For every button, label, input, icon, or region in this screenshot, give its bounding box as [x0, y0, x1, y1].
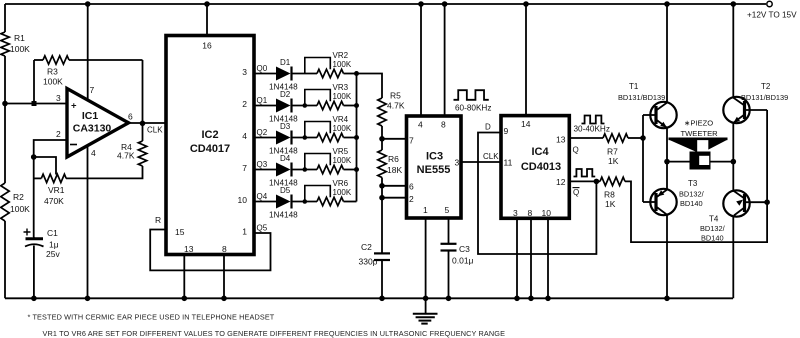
svg-text:100K: 100K	[333, 156, 352, 165]
op-amp IC1 CA3130	[67, 89, 129, 158]
svg-text:0.01μ: 0.01μ	[452, 256, 474, 266]
svg-text:4: 4	[91, 148, 96, 158]
svg-text:3: 3	[56, 93, 61, 103]
wire D1 cathode to VR2	[292, 73, 318, 75]
wire D3 cathode to VR4	[292, 137, 318, 139]
svg-text:12: 12	[556, 177, 566, 187]
svg-text:T3: T3	[688, 179, 698, 188]
IC4 CD4013 box	[501, 116, 569, 219]
svg-text:C3: C3	[459, 244, 470, 254]
IC2 pin16 wire to +V rail	[206, 4, 208, 36]
capacitor C1 1u 25v electrolytic	[33, 237, 35, 238]
svg-text:VR3: VR3	[333, 83, 349, 92]
wire speaker left terminal	[667, 161, 690, 163]
squarewave symbol Q-bar output	[574, 169, 596, 177]
svg-text:T4: T4	[709, 215, 719, 224]
svg-text:VR1 TO VR6 ARE SET FOR DIFFERE: VR1 TO VR6 ARE SET FOR DIFFERENT VALUES …	[43, 329, 506, 338]
svg-text:Q3: Q3	[257, 160, 268, 169]
svg-text:4.7K: 4.7K	[387, 101, 405, 111]
svg-text:1: 1	[242, 227, 247, 237]
svg-text:1K: 1K	[605, 199, 616, 209]
resistor R6 18K	[378, 150, 386, 178]
wire R3 right leg down to output node	[142, 60, 144, 124]
svg-text:8: 8	[441, 120, 446, 130]
svg-text:D1: D1	[280, 58, 291, 67]
potentiometer VR1 470K	[41, 174, 66, 182]
svg-text:100K: 100K	[333, 188, 352, 197]
svg-text:Q: Q	[573, 146, 579, 155]
svg-text:CA3130: CA3130	[73, 123, 112, 135]
svg-text:30-40KHz: 30-40KHz	[574, 125, 610, 134]
preset VR5 100K	[317, 165, 343, 173]
svg-text:NE555: NE555	[417, 164, 451, 176]
svg-text:CD4013: CD4013	[521, 161, 561, 173]
svg-text:VR4: VR4	[333, 115, 349, 124]
resistor R1 100K	[0, 32, 11, 56]
wire R7 to T1/T3 bases	[628, 137, 643, 139]
svg-text:VR6: VR6	[333, 179, 349, 188]
svg-text:BD131/BD139: BD131/BD139	[741, 93, 788, 102]
diode D2 1N4148	[276, 99, 291, 113]
wire top +12V supply rail	[5, 3, 766, 5]
svg-text:2: 2	[56, 129, 61, 139]
IC2 pin 3 Q0 output wire	[254, 73, 276, 75]
svg-text:D4: D4	[280, 154, 291, 163]
svg-text:8: 8	[222, 244, 227, 254]
wire R3 left leg	[33, 60, 35, 104]
wire op-amp pin3 input	[5, 103, 67, 105]
svg-text:13: 13	[556, 135, 566, 145]
resistor R8 1K	[600, 177, 625, 185]
svg-text:VR2: VR2	[333, 51, 349, 60]
svg-text:7: 7	[90, 85, 95, 95]
wire / node IC3 pin6 pin2	[381, 178, 383, 254]
svg-text:R7: R7	[607, 147, 618, 157]
svg-text:CD4017: CD4017	[190, 143, 230, 155]
svg-text:R1: R1	[14, 33, 25, 43]
wire T3 collector to ground	[666, 214, 668, 298]
diode D5 1N4148	[276, 195, 291, 209]
wire op-amp pin7 to +V rail	[87, 4, 89, 101]
wire speaker right terminal	[711, 161, 734, 163]
svg-text:100K: 100K	[333, 124, 352, 133]
diode D1 1N4148	[276, 67, 291, 81]
IC4 pin9 D input wire with feedback from Q-bar	[478, 133, 596, 255]
svg-text:IC1: IC1	[82, 110, 99, 122]
IC2 pin 2 Q1 output wire	[254, 105, 276, 107]
IC3 pin1 wire to ground	[425, 218, 427, 298]
wire T1 emitter to speaker node	[666, 127, 668, 161]
wire op-amp pin2 input	[34, 140, 67, 157]
node junction R3/pin3	[32, 101, 37, 106]
svg-text:BD132/: BD132/	[700, 224, 726, 233]
wire T2 collector to +V rail	[732, 4, 734, 98]
svg-text:+12V TO 15V: +12V TO 15V	[747, 11, 797, 20]
wire VR3 to common node	[344, 105, 357, 107]
svg-text:T1: T1	[629, 82, 639, 91]
wire T1 collector to +V rail	[666, 4, 668, 103]
svg-text:3: 3	[513, 208, 518, 218]
preset VR4 100K	[317, 133, 343, 141]
squarewave symbol 30-40KHz	[582, 116, 605, 124]
supply terminal +12V TO 15V	[767, 1, 772, 6]
preset VR2 100K	[317, 69, 343, 77]
svg-text:* TESTED WITH CERMIC EAR PIEC: * TESTED WITH CERMIC EAR PIECE USED IN T…	[28, 313, 275, 322]
capacitor C2 330p	[374, 252, 390, 254]
svg-text:1K: 1K	[608, 156, 619, 166]
IC4 pin10 wire to ground	[547, 218, 549, 298]
svg-text:16: 16	[202, 41, 212, 51]
svg-text:14: 14	[521, 119, 531, 129]
IC3 pin8 wire to +V rail	[444, 4, 446, 116]
svg-text:Q0: Q0	[257, 64, 268, 73]
wire ground bottom rail	[5, 297, 733, 299]
svg-text:CLK: CLK	[147, 126, 163, 135]
wire T4 collector to ground rail end	[732, 215, 734, 298]
svg-text:R3: R3	[47, 67, 58, 77]
IC3 pin5 wire and capacitor C3 0.01u	[448, 218, 450, 243]
svg-text:100K: 100K	[10, 204, 30, 214]
svg-text:11: 11	[504, 158, 513, 168]
svg-text:9: 9	[504, 126, 509, 136]
svg-text:∗PIEZO: ∗PIEZO	[684, 119, 713, 128]
svg-text:Q5: Q5	[257, 224, 268, 233]
svg-text:BD131/BD139: BD131/BD139	[618, 93, 665, 102]
wire D4 cathode to VR5	[292, 169, 318, 171]
svg-text:R6: R6	[388, 154, 399, 164]
svg-text:2: 2	[242, 99, 247, 109]
svg-text:470K: 470K	[44, 196, 64, 206]
svg-text:60-80KHz: 60-80KHz	[455, 104, 491, 113]
wire pin2 node down to C1	[33, 157, 35, 237]
wire T4 emitter to speaker node	[732, 162, 734, 191]
svg-text:1N4148: 1N4148	[269, 211, 298, 220]
resistor R3 100K	[43, 56, 69, 64]
svg-text:VR1: VR1	[48, 185, 65, 195]
svg-text:+: +	[71, 101, 77, 112]
svg-text:2: 2	[409, 194, 414, 204]
svg-text:BD140: BD140	[701, 234, 724, 243]
wire VR5 to common node	[344, 169, 357, 171]
svg-text:18K: 18K	[387, 165, 402, 175]
IC4 pin13 Q output wire	[569, 137, 603, 139]
svg-text:D5: D5	[280, 186, 291, 195]
svg-text:6: 6	[409, 182, 414, 192]
svg-text:BD140: BD140	[680, 199, 703, 208]
svg-text:VR5: VR5	[333, 147, 349, 156]
svg-text:IC2: IC2	[201, 129, 218, 141]
svg-text:Q1: Q1	[257, 96, 268, 105]
svg-text:C2: C2	[361, 242, 372, 252]
svg-text:3: 3	[455, 158, 460, 168]
resistor R2 100K	[0, 183, 11, 221]
svg-text:R8: R8	[604, 190, 615, 200]
diode D4 1N4148	[276, 163, 291, 177]
wire T2 emitter to speaker node	[732, 122, 734, 161]
svg-text:25v: 25v	[46, 249, 60, 259]
IC4 pin14 wire to +V rail	[525, 4, 527, 116]
svg-text:D: D	[485, 123, 491, 132]
IC2 pin 7 Q3 output wire	[254, 169, 276, 171]
svg-text:IC3: IC3	[426, 151, 443, 163]
transistor T3 BD132/BD140 pnp	[650, 189, 676, 215]
wire VR common to R5 top	[357, 74, 383, 99]
svg-text:5: 5	[445, 205, 450, 215]
IC2 pin8 wire to ground	[223, 255, 225, 299]
svg-text:100K: 100K	[333, 60, 352, 69]
svg-text:IC4: IC4	[531, 146, 549, 158]
wire R4 bottom to VR1 right	[66, 166, 143, 178]
IC2 CD4017 box	[166, 36, 254, 255]
svg-text:4: 4	[418, 120, 423, 130]
preset VR3 100K	[317, 101, 343, 109]
wire op-amp pin4 to ground	[87, 146, 89, 299]
svg-text:R2: R2	[13, 192, 24, 202]
svg-text:330p: 330p	[359, 257, 378, 267]
svg-text:8: 8	[528, 208, 533, 218]
svg-text:100K: 100K	[43, 77, 63, 87]
resistor R4 4.7K	[142, 123, 144, 141]
preset VR6 100K	[317, 197, 343, 205]
IC2 pin 4 Q2 output wire	[254, 137, 276, 139]
wire VR2 to common node	[344, 73, 357, 75]
svg-text:7: 7	[242, 163, 247, 173]
svg-text:T2: T2	[761, 82, 771, 91]
wire D5 cathode to VR6	[292, 201, 318, 203]
ground symbol	[425, 298, 427, 313]
svg-text:D2: D2	[280, 90, 291, 99]
transistor T1 BD131/BD139 npn	[650, 102, 676, 128]
svg-text:1: 1	[423, 205, 428, 215]
wire VR4 to common node	[344, 137, 357, 139]
svg-text:R5: R5	[390, 91, 401, 101]
svg-text:CLK: CLK	[483, 152, 499, 161]
svg-text:D3: D3	[280, 122, 291, 131]
wire VR1 wiper link	[34, 157, 56, 175]
piezo tweeter speaker	[669, 138, 728, 141]
wire op-amp output pin6 / CLK node	[129, 122, 167, 124]
wire left vertical rail	[4, 4, 6, 298]
wire T3 emitter to speaker node	[666, 162, 668, 190]
svg-text:100K: 100K	[333, 92, 352, 101]
svg-text:BD132/: BD132/	[679, 190, 705, 199]
resistor R7 1K	[603, 134, 628, 142]
svg-text:13: 13	[184, 244, 194, 254]
IC3 pin4 wire to +V rail	[420, 4, 422, 116]
svg-text:10: 10	[542, 208, 552, 218]
wire VR6 to common node	[344, 201, 357, 203]
svg-text:Q2: Q2	[257, 128, 268, 137]
IC4 pin3 wire to ground	[516, 218, 518, 298]
wire R8 to T2/T4 bases	[625, 110, 767, 242]
svg-text:Q: Q	[573, 188, 579, 197]
IC2 pin13 wire to ground	[183, 255, 185, 299]
svg-text:10: 10	[238, 195, 248, 205]
wire D2 cathode to VR3	[292, 105, 318, 107]
diode D3 1N4148	[276, 131, 291, 145]
svg-text:100K: 100K	[10, 44, 30, 54]
IC3 pin3 output wire to IC4 CLK pin11	[461, 161, 501, 163]
svg-text:4: 4	[242, 131, 247, 141]
svg-text:3: 3	[242, 67, 247, 77]
svg-text:6: 6	[128, 112, 133, 122]
svg-text:R: R	[155, 215, 161, 225]
resistor R5 4.7K	[378, 98, 386, 126]
wire / node IC3 pin7	[381, 126, 383, 150]
svg-text:15: 15	[175, 227, 185, 237]
svg-text:7: 7	[409, 136, 414, 146]
IC2 pin 10 Q4 output wire	[254, 201, 276, 203]
wire VR common vertical	[356, 74, 358, 202]
svg-text:1μ: 1μ	[49, 240, 59, 250]
svg-text:4.7K: 4.7K	[117, 151, 135, 161]
transistor T4 BD132/BD140 pnp mirrored	[723, 190, 749, 216]
svg-text:C1: C1	[47, 228, 58, 238]
svg-text:Q4: Q4	[257, 192, 268, 201]
squarewave symbol 60-80KHz	[454, 90, 489, 100]
IC4 pin8 wire to ground	[530, 218, 532, 298]
IC3 NE555 box	[407, 116, 462, 218]
IC4 pin12 Q-bar output wire	[569, 180, 600, 182]
svg-text:TWEETER: TWEETER	[681, 129, 719, 138]
transistor T2 BD131/BD139 npn mirrored	[723, 97, 749, 123]
